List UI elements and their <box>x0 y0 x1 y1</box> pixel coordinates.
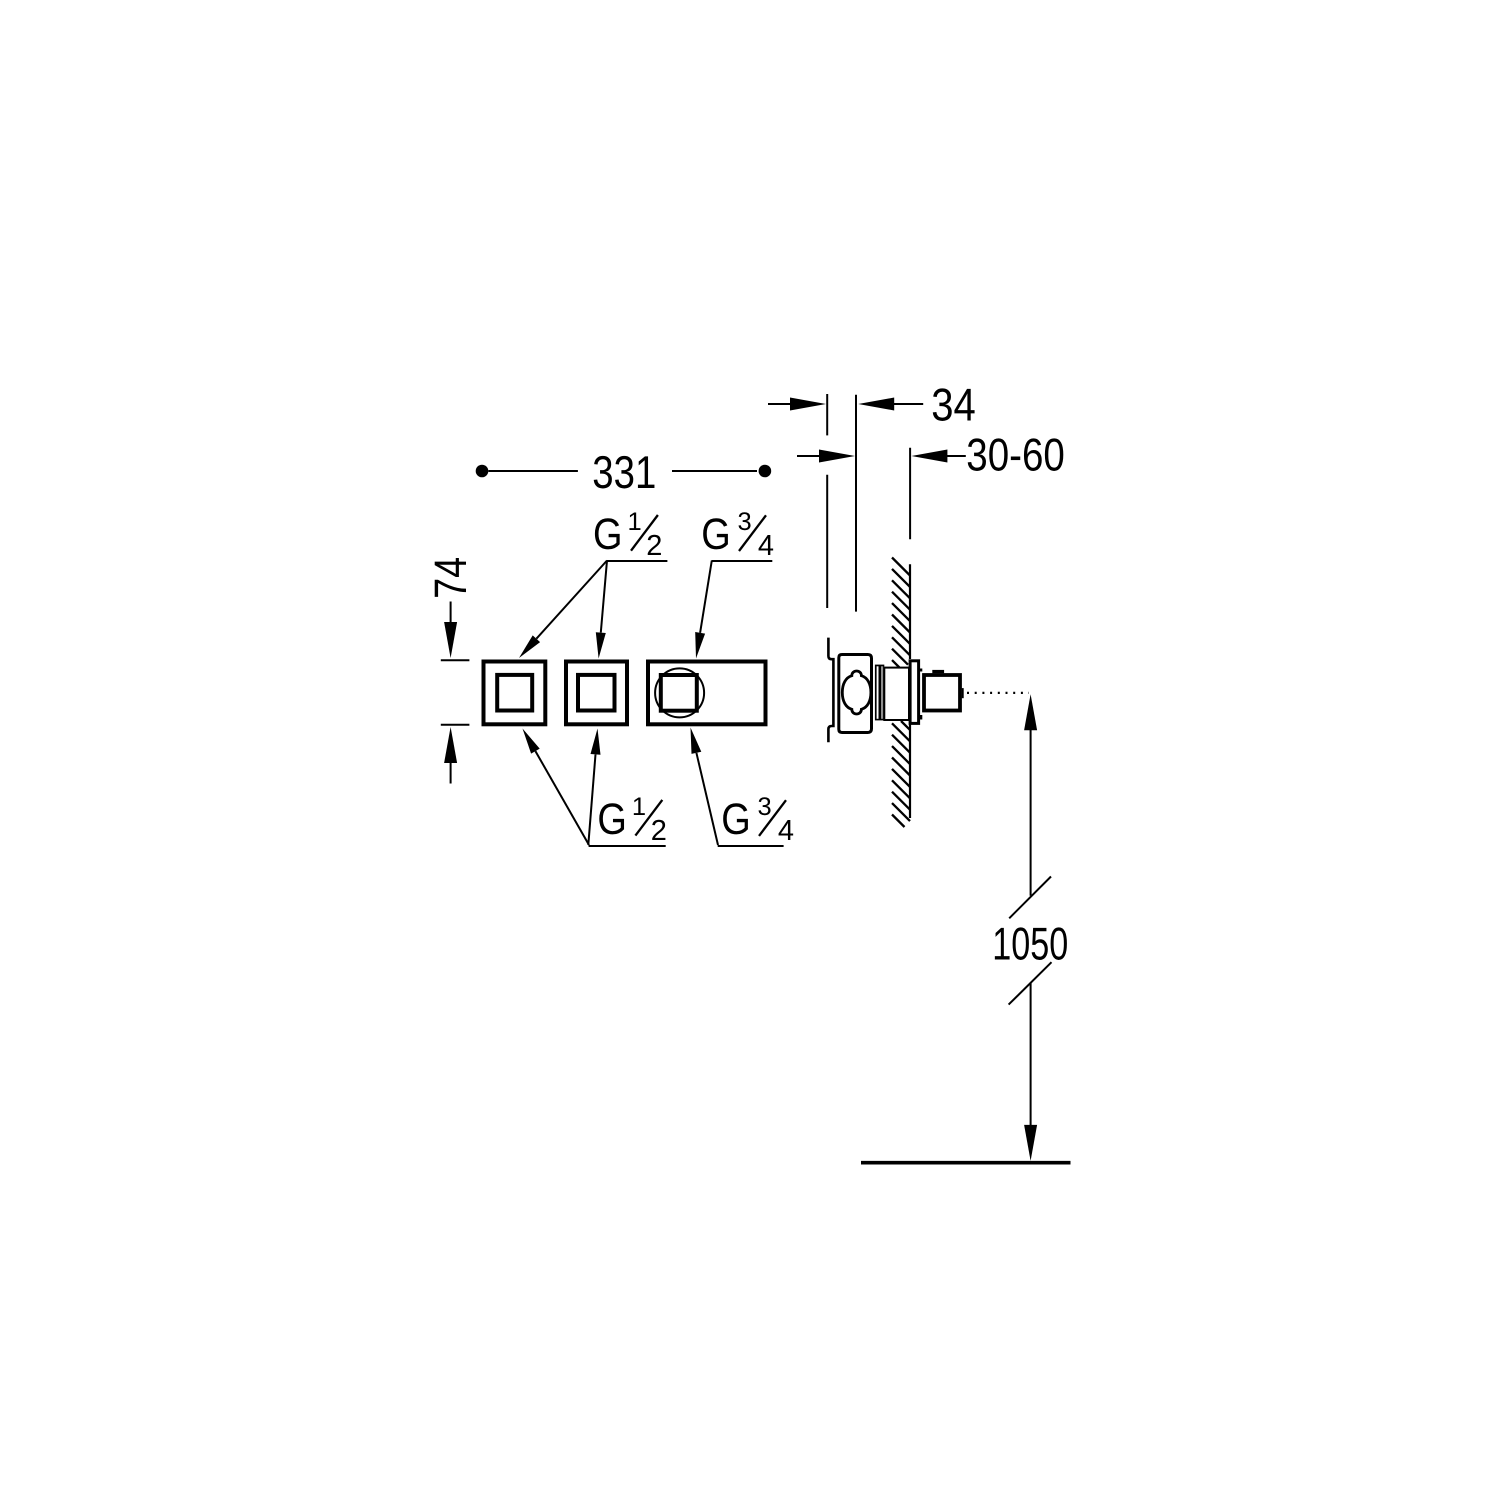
dimension 331 dot left <box>476 465 489 478</box>
dimension 34 right line <box>892 403 923 405</box>
dimension 74 label (rotated) <box>425 557 476 599</box>
label G 1/2 bottom: fraction slash <box>635 800 662 836</box>
dimension 74 upper tick <box>441 659 470 661</box>
dimension 331 line left <box>488 470 578 472</box>
dimension 74 lower extension line <box>450 761 452 784</box>
svg-text:1: 1 <box>632 793 646 821</box>
dimension 331 line right <box>672 470 757 472</box>
valve body quatrefoil cam <box>842 671 871 714</box>
extension line x827 upper <box>826 394 828 435</box>
svg-text:30-60: 30-60 <box>966 428 1065 480</box>
dimension 30-60 left line <box>797 455 821 457</box>
svg-text:G: G <box>721 795 751 844</box>
leader top G3/4 to spout rectangle <box>695 561 712 659</box>
dimension 30-60 left arrow (right pointing) <box>819 450 855 463</box>
valve body (in-wall) <box>839 655 872 733</box>
svg-text:G: G <box>597 795 627 844</box>
spout inner square <box>661 675 697 711</box>
label G 1/2 top: fraction slash <box>631 515 658 551</box>
handle (side view) <box>924 675 960 711</box>
escutcheon plate <box>910 661 919 724</box>
svg-text:4: 4 <box>778 815 794 847</box>
handle square 1 inner <box>497 675 532 711</box>
svg-text:G: G <box>593 510 623 559</box>
adapter ring grey stripe <box>881 666 883 719</box>
dimension 30-60 extension tick at wall <box>909 448 911 540</box>
dimension 34 left arrow (right pointing) <box>790 398 826 411</box>
dimension 331 dot right <box>759 465 772 478</box>
escutcheon tab bottom <box>920 715 922 720</box>
dimension 74 lower tick <box>441 724 470 726</box>
svg-text:1050: 1050 <box>992 917 1068 969</box>
label G 3/4 top: fraction slash <box>739 515 766 551</box>
dimension 74 lower arrow (up) <box>444 727 457 763</box>
wall hatching lower <box>892 721 910 827</box>
label G 3/4 bottom underline <box>718 845 784 847</box>
svg-text:331: 331 <box>592 446 656 498</box>
dimension 1050 bottom arrow (down) <box>1024 1125 1037 1161</box>
svg-text:1: 1 <box>628 508 642 536</box>
escutcheon tab top <box>920 669 922 672</box>
dotted centre line <box>967 692 1029 694</box>
svg-text:G: G <box>701 510 731 559</box>
wall surface line upper <box>909 564 911 659</box>
adapter ring block (black) <box>875 665 884 721</box>
svg-text:74: 74 <box>425 557 476 599</box>
handle top tab <box>932 670 944 673</box>
floor line <box>861 1161 1071 1165</box>
extension line x827 lower <box>826 475 828 608</box>
dimension 1050 top arrow (up) <box>1024 694 1037 730</box>
dimension 1050 line upper <box>1030 728 1032 896</box>
handle square 2 outer <box>566 662 627 725</box>
wall surface line lower <box>909 725 911 819</box>
handle right tab <box>962 688 964 698</box>
spout circle <box>655 668 704 717</box>
dimension 74 upper extension line <box>450 602 452 627</box>
svg-text:2: 2 <box>651 815 667 847</box>
svg-text:3: 3 <box>738 508 752 536</box>
dimension 30-60 right line <box>946 455 966 457</box>
dimension 1050 break slash lower <box>1009 962 1052 1004</box>
handle square 2 inner <box>578 675 615 711</box>
leader bottom G1/2 to square 2 <box>588 729 600 846</box>
label G 1/2 top underline <box>607 560 668 562</box>
dimension 30-60 right arrow (left pointing) <box>911 450 947 463</box>
svg-text:3: 3 <box>758 793 772 821</box>
dimension 74 upper arrow (down) <box>444 622 457 658</box>
svg-text:34: 34 <box>931 378 976 430</box>
label G 1/2 bottom underline <box>589 845 666 847</box>
wall hatching upper <box>892 558 910 668</box>
leader top G1/2 to square 1 <box>519 561 607 659</box>
handle square 1 outer <box>484 662 546 725</box>
dimension 1050 line lower <box>1030 983 1032 1127</box>
dimension 34 right arrow (left pointing) <box>858 398 894 411</box>
extension line x856 <box>855 395 857 612</box>
mounting bracket profile <box>828 638 833 743</box>
label G 3/4 top underline <box>712 560 773 562</box>
svg-text:4: 4 <box>758 530 774 562</box>
cartridge in wall <box>884 668 909 720</box>
spout body rectangle <box>648 662 766 725</box>
leader bottom G3/4 to spout rectangle <box>691 728 719 846</box>
dimension 1050 break slash upper <box>1009 877 1051 919</box>
svg-text:2: 2 <box>646 530 662 562</box>
label G 3/4 bottom: fraction slash <box>759 800 786 836</box>
dimension 34 left line <box>768 403 792 405</box>
adapter ring white stripe <box>877 666 879 719</box>
leader bottom G1/2 to square 1 <box>523 729 590 846</box>
leader top G1/2 to square 2 <box>596 561 607 659</box>
